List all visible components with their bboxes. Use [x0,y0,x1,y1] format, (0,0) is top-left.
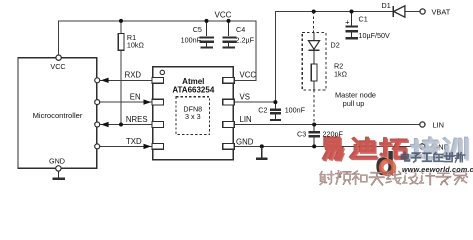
dashed net from box to LIN [313,90,315,124]
svg-text:ATA663254: ATA663254 [172,86,215,95]
op IC U1 Atmel ATA663254 body [153,67,234,160]
svg-text:D1: D1 [382,1,391,10]
svg-text:100nF: 100nF [285,106,306,115]
arrow RXD left [101,78,109,83]
svg-text:TXD: TXD [126,137,142,146]
svg-text:NRES: NRES [126,115,148,124]
node VCC microcontroller [56,55,61,60]
svg-text:VCC: VCC [240,71,257,80]
wire GND line [233,145,420,147]
svg-text:VCC: VCC [215,11,232,20]
arrow EN right [144,99,152,104]
pin 1 marker circle [160,70,164,74]
svg-text:RXD: RXD [125,71,142,80]
svg-text:+: + [345,17,350,26]
svg-text:10µF/50V: 10µF/50V [359,31,391,40]
node dot NRES-R1 [119,123,123,127]
svg-text:www.eeworld.com.cn: www.eeworld.com.cn [402,165,473,174]
wire VCC rail top-left [59,21,257,80]
resistor R2 [311,64,317,81]
wire EN [99,101,151,103]
svg-text:EN: EN [130,93,141,102]
chip pins right [223,77,235,83]
arrow TXD right [144,144,152,149]
svg-text:VS: VS [240,93,250,102]
svg-text:2.2µF: 2.2µF [236,36,255,45]
ground C5 [201,46,214,48]
svg-text:C5: C5 [193,25,202,34]
pin circles on microcontroller right edge [95,78,100,83]
node GND microcontroller [56,166,61,171]
ground C2 [270,119,281,121]
svg-text:LIN: LIN [240,115,252,124]
watermark logo EEWORLD d [375,145,395,182]
capacitor C2 [270,102,281,120]
diode D2 [313,33,315,41]
ground chip GND [260,144,264,148]
wire D1 cathode to VBAT terminal [405,11,420,13]
wire VBAT rail top-right [233,12,392,103]
wire NRES [99,124,151,126]
svg-text:GND: GND [236,138,254,147]
capacitor C3 [309,125,320,147]
terminal LIN [420,122,425,127]
svg-text:C2: C2 [258,106,267,115]
wire RXD [99,79,151,81]
svg-text:C3: C3 [297,130,306,139]
wire LIN line [233,124,420,126]
wire R1 vertical [120,21,122,34]
wire TXD [99,145,151,147]
capacitor C5 [200,21,214,48]
resistor R1 [118,34,124,51]
ground C4 [223,46,235,48]
ground microcontroller [57,171,59,178]
DFN8 dashed box [176,97,210,135]
arrow NRES left [101,122,109,127]
svg-text:Microcontroller: Microcontroller [33,111,83,120]
svg-text:1kΩ: 1kΩ [334,70,348,79]
terminal GND [420,144,425,149]
capacitor C4 [223,21,237,48]
dashed box master node pull up [302,33,326,91]
svg-text:C1: C1 [359,15,368,24]
svg-text:100nF: 100nF [181,36,202,45]
microcontroller box [18,58,97,169]
svg-text:D2: D2 [331,41,340,50]
dashed net from VBAT rail to D2 [312,10,316,14]
svg-text:3 x 3: 3 x 3 [185,112,201,121]
watermark text dianzi gongcheng shijie [401,152,464,162]
svg-text:VBAT: VBAT [432,8,451,17]
watermark big red yi di tuo pei xun [324,138,406,158]
svg-text:10kΩ: 10kΩ [127,41,145,50]
svg-text:VCC: VCC [50,62,65,71]
watermark line2 shepin he tianxian sheji zhuanjia [320,171,467,185]
chip pins left [152,77,234,149]
ground C1 [345,37,358,39]
svg-text:pull up: pull up [343,99,365,108]
capacitor C1 polarized [345,12,358,39]
svg-text:LIN: LIN [433,121,445,130]
svg-text:C4: C4 [236,25,245,34]
terminal VBAT [420,9,425,14]
svg-text:GND: GND [49,157,65,166]
